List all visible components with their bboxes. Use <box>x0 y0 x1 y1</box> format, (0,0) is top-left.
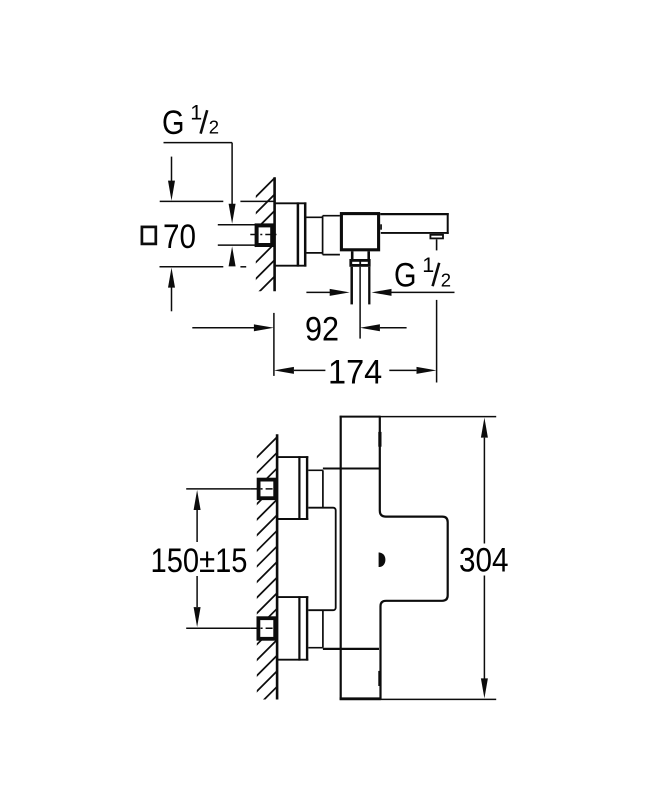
shower outlet nipple G1/2 <box>352 267 370 305</box>
150 extension lines <box>186 488 250 490</box>
dimension 304 <box>481 418 488 438</box>
centerline of inlet (dash-dot) <box>250 234 276 236</box>
dimension 70: upper arrow <box>171 157 173 181</box>
wall line (bottom view) <box>276 434 279 699</box>
inlet square G1/2 on wall (top view) <box>257 225 273 245</box>
shower outlet collar <box>351 260 369 265</box>
escutcheon plate (top view) <box>275 202 307 266</box>
lower inlet centerline (dash-dot) <box>251 627 279 629</box>
svg-text:304: 304 <box>459 541 509 579</box>
lower divider line across column <box>323 648 379 650</box>
wall extension line below wall <box>273 313 275 376</box>
shower outlet neck below body <box>352 251 369 259</box>
lower inlet square (bottom view) <box>258 618 275 639</box>
svg-text:G: G <box>162 104 185 142</box>
label G 1/2 (lower) <box>394 253 451 295</box>
arrow up to inlet bottom edge <box>229 246 236 266</box>
svg-text:174: 174 <box>328 354 382 392</box>
wall hatching (top view) <box>250 173 280 318</box>
dimension 92 line left piece with arrow to wall <box>192 327 256 329</box>
dimension 150±15 <box>194 490 201 510</box>
upper neck (bottom view) <box>308 470 323 507</box>
seam ticks on column right edge <box>378 432 381 447</box>
column bottom edge <box>340 697 381 700</box>
thermostat body cube (top view) <box>341 214 378 250</box>
dimension 174 <box>274 367 294 374</box>
extension line bottom of escutcheon <box>160 266 224 268</box>
connecting cover between inlets <box>308 508 335 611</box>
dimension 70: lower arrow <box>168 268 175 288</box>
aerator under spout <box>430 235 443 239</box>
outlet centerline extension <box>359 267 361 339</box>
svg-text:1: 1 <box>190 100 202 124</box>
extension lines of inlet square <box>218 224 256 226</box>
svg-text:92: 92 <box>305 311 339 349</box>
upper inlet centerline (dash-dot) <box>251 488 279 490</box>
dimension G1/2 of outlet nipple <box>306 291 330 293</box>
lower neck (bottom view) <box>308 610 323 648</box>
svg-text:1: 1 <box>422 253 434 277</box>
upper inlet square (bottom view) <box>259 480 276 499</box>
connection neck section 1 <box>306 216 322 255</box>
extension line top of escutcheon <box>160 200 224 202</box>
right extension line (spout outlet axis) <box>436 300 438 383</box>
lower escutcheon (bottom view) <box>277 596 308 660</box>
cartridge wing and column right edge (bottom view) <box>380 416 448 700</box>
label G 1/2 (upper) <box>162 100 219 142</box>
leader line from G1/2 label <box>164 142 233 144</box>
upper escutcheon (bottom view) <box>277 456 308 520</box>
small button bump on body right edge <box>380 224 382 229</box>
aerator nub line <box>436 239 438 250</box>
upper divider line across column <box>323 468 380 470</box>
svg-text:70: 70 <box>163 218 196 256</box>
svg-text:2: 2 <box>209 117 219 138</box>
spout <box>380 213 449 234</box>
dimension 92 right piece with arrow to outlet centerline <box>360 324 380 331</box>
304 extension lines <box>380 416 496 418</box>
svg-text:2: 2 <box>441 269 451 290</box>
body center column (bottom view) <box>340 416 380 700</box>
arrow down to inlet top edge <box>229 204 236 224</box>
svg-text:G: G <box>394 257 417 295</box>
wall hatching (bottom view) <box>249 433 281 746</box>
wall line (top view) <box>273 177 276 291</box>
SafeStop button blob <box>379 553 386 568</box>
connection neck section 2 <box>323 216 340 255</box>
svg-text:150±15: 150±15 <box>151 542 248 580</box>
square symbol for 70 <box>142 227 156 244</box>
